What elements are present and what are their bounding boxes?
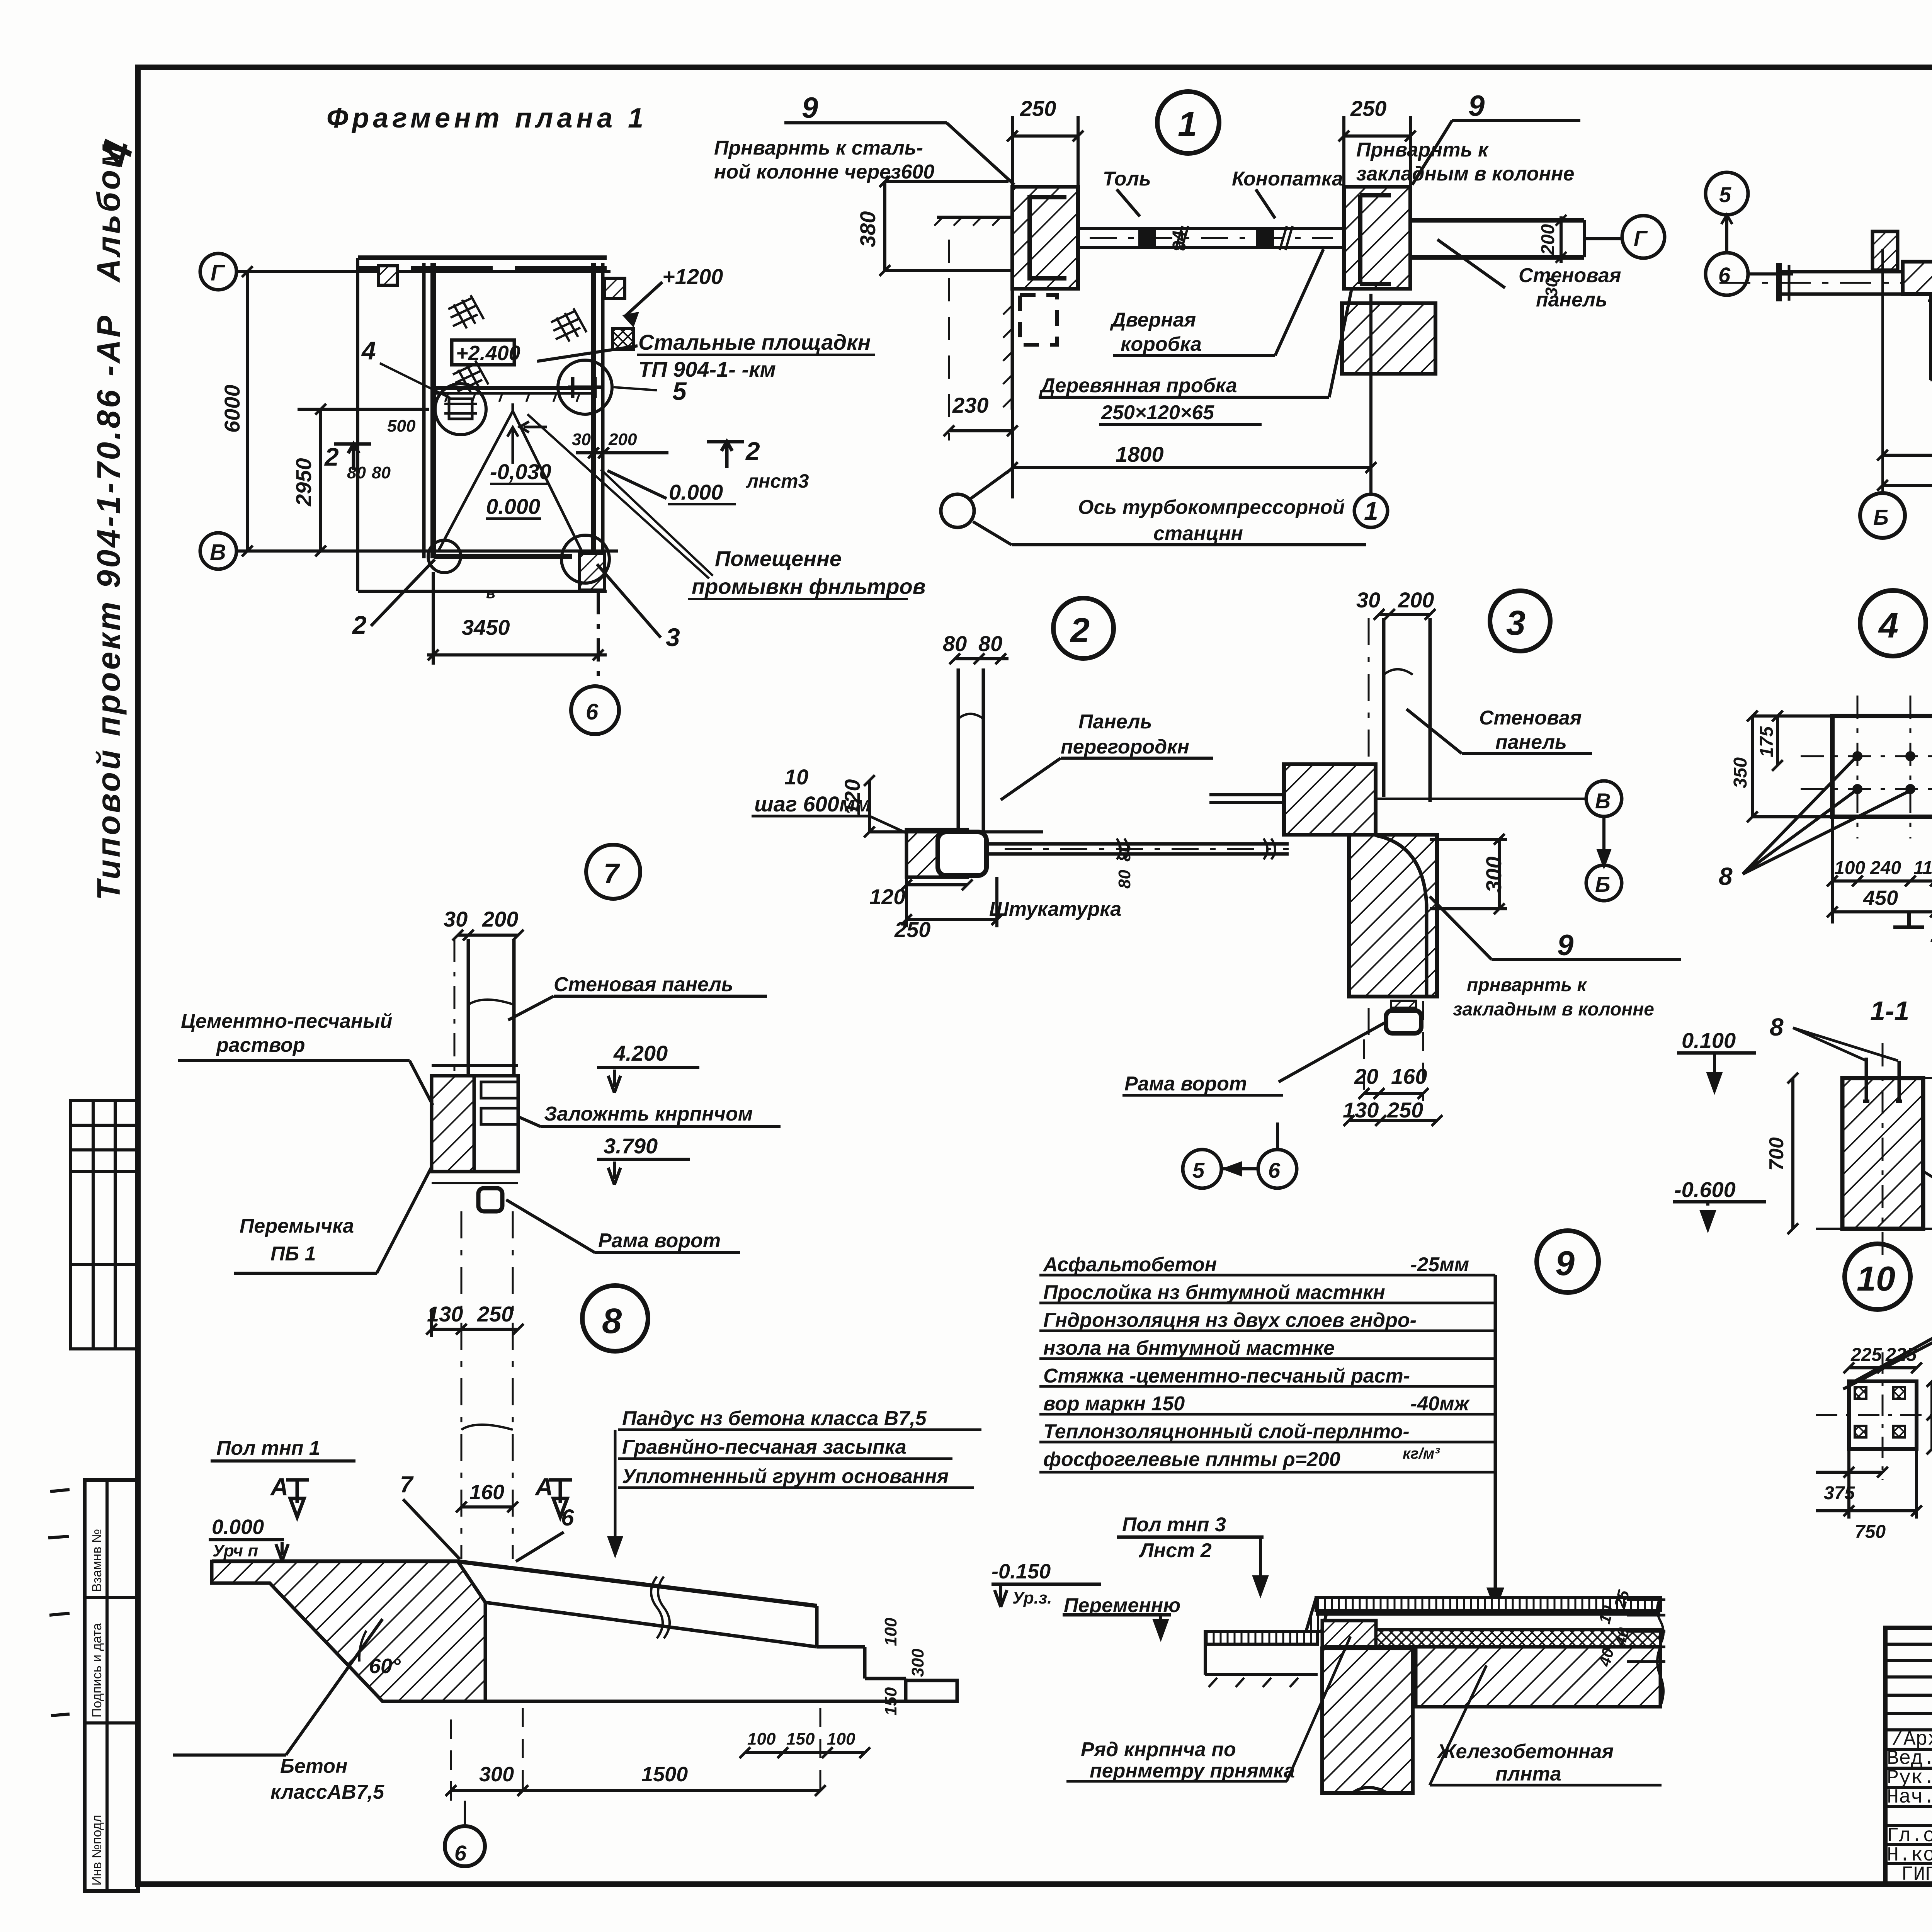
svg-text:Пол тнп 3: Пол тнп 3 (1122, 1514, 1226, 1536)
svg-text:раствор: раствор (216, 1034, 305, 1056)
svg-text:9: 9 (802, 92, 818, 124)
svg-text:Взамнв №: Взамнв № (90, 1529, 104, 1592)
svg-text:200: 200 (482, 907, 518, 931)
svg-text:Переменню: Переменню (1064, 1594, 1180, 1617)
svg-text:240: 240 (1870, 858, 1901, 878)
svg-text:плнта: плнта (1495, 1763, 1561, 1785)
svg-text:130: 130 (1343, 1098, 1379, 1122)
svg-text:100: 100 (881, 1617, 900, 1646)
svg-text:450: 450 (1863, 886, 1898, 910)
svg-text:Г: Г (211, 260, 225, 286)
svg-text:-40мж: -40мж (1410, 1393, 1470, 1415)
svg-text:Стяжка -цементно-песчаный рас: Стяжка -цементно-песчаный раст- (1043, 1365, 1410, 1387)
svg-text:ГИП: ГИП (1901, 1863, 1932, 1886)
svg-text:Нач.отд.Саакьянц: Нач.отд.Саакьянц (1887, 1786, 1932, 1809)
svg-text:0.100: 0.100 (1682, 1028, 1736, 1053)
svg-text:250: 250 (1020, 96, 1056, 121)
svg-text:2: 2 (352, 611, 367, 639)
svg-text:Цементно-песчаный: Цементно-песчаный (181, 1010, 392, 1032)
svg-text:230: 230 (952, 393, 988, 417)
svg-text:Заложнть кнрпнчом: Заложнть кнрпнчом (544, 1103, 753, 1125)
svg-text:120: 120 (869, 884, 905, 909)
svg-text:1: 1 (1178, 105, 1197, 144)
svg-text:0.000: 0.000 (486, 494, 540, 519)
svg-text:4: 4 (361, 336, 376, 365)
svg-text:Стеновая: Стеновая (1479, 707, 1582, 729)
svg-text:0.000: 0.000 (669, 480, 723, 504)
svg-text:Асфальтобетон: Асфальтобетон (1043, 1253, 1217, 1276)
svg-text:2: 2 (745, 437, 760, 465)
svg-text:закладным в колонне: закладным в колонне (1356, 163, 1574, 185)
svg-text:30: 30 (444, 907, 468, 931)
svg-text:в: в (486, 585, 495, 602)
svg-text:+2.400: +2.400 (456, 342, 520, 365)
svg-text:Рама ворот: Рама ворот (1124, 1073, 1247, 1095)
svg-text:160: 160 (1391, 1064, 1427, 1088)
svg-text:Помещенне: Помещенне (715, 546, 842, 571)
svg-text:30: 30 (1542, 278, 1561, 297)
svg-text:прнварнть к: прнварнть к (1467, 975, 1588, 995)
svg-text:Лнст 2: Лнст 2 (1138, 1539, 1212, 1562)
svg-text:промывкн фнльтров: промывкн фнльтров (692, 574, 926, 599)
svg-text:Стеновая панель: Стеновая панель (554, 973, 733, 996)
svg-text:3: 3 (666, 623, 680, 651)
svg-text:250: 250 (477, 1302, 513, 1326)
svg-text:пернметру прнямка: пернметру прнямка (1090, 1760, 1295, 1782)
svg-text:60°: 60° (369, 1655, 401, 1678)
svg-text:Ур.з.: Ур.з. (1012, 1588, 1052, 1607)
svg-text:80: 80 (1115, 870, 1134, 889)
svg-text:-0.150: -0.150 (992, 1560, 1051, 1583)
svg-text:лнст3: лнст3 (746, 470, 809, 492)
svg-text:6: 6 (454, 1841, 467, 1865)
svg-text:380: 380 (855, 211, 880, 247)
svg-text:Гндронзоляцня нз двух слоев: Гндронзоляцня нз двух слоев гндро- (1043, 1309, 1417, 1332)
svg-text:80: 80 (978, 631, 1002, 656)
svg-text:Г: Г (1634, 226, 1648, 250)
svg-text:Б: Б (1873, 505, 1889, 529)
svg-text:1500: 1500 (641, 1763, 688, 1786)
svg-text:панель: панель (1495, 731, 1567, 753)
svg-text:250: 250 (1350, 96, 1386, 121)
svg-text:Ряд кнрпнча по: Ряд кнрпнча по (1081, 1738, 1236, 1761)
svg-text:750: 750 (1855, 1522, 1886, 1542)
svg-text:закладным в колонне: закладным в колонне (1453, 999, 1654, 1020)
svg-text:4: 4 (1878, 606, 1898, 645)
svg-text:350: 350 (1730, 757, 1751, 788)
svg-text:6000: 6000 (220, 384, 244, 433)
svg-text:1: 1 (1364, 497, 1378, 525)
svg-text:20: 20 (1354, 1064, 1378, 1088)
svg-text:перегородкн: перегородкн (1061, 736, 1189, 758)
svg-text:Инв №подл: Инв №подл (90, 1815, 104, 1886)
svg-text:Пандус нз бетона класса В7,: Пандус нз бетона класса В7,5 (622, 1407, 927, 1430)
svg-text:Штукатурка: Штукатурка (989, 898, 1121, 920)
svg-text:Теплонзоляцнонный слой-перлнт: Теплонзоляцнонный слой-перлнто- (1043, 1420, 1410, 1443)
svg-text:225: 225 (1850, 1345, 1882, 1365)
svg-text:10: 10 (1857, 1260, 1895, 1298)
svg-text:4.200: 4.200 (613, 1041, 668, 1065)
svg-text:5: 5 (1192, 1158, 1205, 1182)
svg-text:250×120×65: 250×120×65 (1101, 401, 1214, 424)
svg-text:Панель: Панель (1078, 711, 1152, 733)
svg-text:2: 2 (324, 442, 339, 471)
svg-text:175: 175 (1757, 726, 1777, 757)
svg-text:кг/м³: кг/м³ (1403, 1445, 1440, 1462)
svg-text:-25мм: -25мм (1410, 1253, 1469, 1276)
svg-text:9: 9 (1557, 929, 1573, 962)
svg-text:A: A (270, 1473, 288, 1501)
svg-text:200: 200 (1538, 224, 1558, 255)
svg-text:100: 100 (827, 1730, 855, 1748)
svg-text:вор маркн 150: вор маркн 150 (1043, 1393, 1185, 1415)
svg-text:10: 10 (784, 765, 808, 789)
svg-text:Толь: Толь (1103, 168, 1151, 190)
svg-text:9: 9 (1468, 90, 1485, 122)
svg-text:200: 200 (608, 430, 637, 449)
svg-text:700: 700 (1765, 1137, 1788, 1171)
svg-text:ной колонне через600: ной колонне через600 (714, 161, 934, 183)
svg-text:Прослойка нз бнтумной мастн: Прослойка нз бнтумной мастнкн (1043, 1281, 1385, 1304)
svg-text:Прнварнть к сталь-: Прнварнть к сталь- (714, 137, 923, 159)
svg-text:коробка: коробка (1121, 333, 1202, 355)
svg-text:Уплотненный грунт основання: Уплотненный грунт основання (622, 1465, 949, 1488)
svg-text:Прнварнть к: Прнварнть к (1356, 139, 1489, 161)
svg-text:1: 1 (1930, 920, 1932, 947)
svg-text:3450: 3450 (462, 615, 510, 639)
svg-text:5: 5 (1719, 182, 1731, 207)
svg-text:2950: 2950 (291, 458, 316, 507)
svg-text:30: 30 (572, 430, 591, 449)
svg-text:Дверная: Дверная (1110, 309, 1196, 331)
svg-text:ТП 904-1- -км: ТП 904-1- -км (638, 357, 776, 381)
svg-text:классАВ7,5: классАВ7,5 (270, 1781, 384, 1803)
svg-text:Типовой проект 904-1-70.86 -А: Типовой проект 904-1-70.86 -АР (90, 313, 127, 900)
svg-text:8: 8 (1719, 862, 1733, 890)
svg-text:Фрагмент плана 1: Фрагмент плана 1 (327, 103, 647, 134)
svg-text:-0,030: -0,030 (490, 459, 551, 484)
svg-text:8: 8 (602, 1301, 622, 1341)
svg-text:100: 100 (747, 1730, 776, 1748)
svg-text:Рама ворот: Рама ворот (598, 1230, 721, 1252)
svg-text:нзола на бнтумной мастнке: нзола на бнтумной мастнке (1043, 1337, 1335, 1359)
svg-text:Бетон: Бетон (280, 1755, 347, 1777)
svg-text:7: 7 (400, 1471, 414, 1497)
svg-text:80: 80 (347, 463, 366, 482)
svg-text:A: A (534, 1473, 553, 1501)
svg-text:7: 7 (604, 858, 620, 889)
svg-text:9: 9 (1555, 1244, 1575, 1283)
svg-text:8: 8 (1770, 1013, 1784, 1041)
svg-text:станцнн: станцнн (1153, 522, 1243, 545)
svg-text:150: 150 (881, 1687, 900, 1716)
svg-text:фосфогелевые плнты ρ=200: фосфогелевые плнты ρ=200 (1043, 1448, 1340, 1471)
svg-text:0.000: 0.000 (212, 1515, 264, 1539)
svg-text:300: 300 (908, 1648, 927, 1677)
svg-text:6: 6 (1268, 1158, 1281, 1182)
svg-text:500: 500 (387, 417, 416, 435)
svg-text:В: В (1595, 789, 1611, 813)
svg-text:ПБ 1: ПБ 1 (270, 1243, 316, 1265)
svg-text:+1200: +1200 (662, 264, 723, 289)
svg-text:1800: 1800 (1116, 442, 1164, 466)
svg-text:Б: Б (1595, 872, 1611, 896)
svg-text:110: 110 (1913, 858, 1932, 878)
svg-text:3: 3 (1506, 604, 1526, 643)
svg-text:2: 2 (1070, 611, 1090, 650)
svg-text:Урч п: Урч п (213, 1541, 258, 1560)
svg-text:Стеновая: Стеновая (1519, 264, 1621, 287)
svg-text:250: 250 (1387, 1098, 1423, 1122)
svg-text:Конопатка: Конопатка (1232, 168, 1343, 190)
svg-text:Ось турбокомпрессорной: Ось турбокомпрессорной (1078, 496, 1345, 519)
svg-text:130: 130 (427, 1302, 463, 1326)
svg-text:Подпись и дата: Подпись и дата (90, 1623, 104, 1718)
svg-text:Гравнйно-песчаная засыпка: Гравнйно-песчаная засыпка (622, 1436, 906, 1458)
svg-text:300: 300 (1481, 857, 1506, 893)
svg-text:150: 150 (786, 1730, 815, 1748)
svg-text:3.790: 3.790 (604, 1134, 658, 1158)
svg-text:100: 100 (1834, 858, 1865, 878)
svg-text:225: 225 (1885, 1345, 1917, 1365)
svg-text:Пол тнп 1: Пол тнп 1 (216, 1437, 320, 1459)
svg-text:-0.600: -0.600 (1674, 1177, 1736, 1202)
svg-text:375: 375 (1824, 1483, 1855, 1503)
svg-text:80: 80 (943, 631, 967, 656)
svg-text:Стальные площадкн: Стальные площадкн (638, 330, 871, 354)
svg-text:200: 200 (1398, 588, 1434, 612)
svg-text:Железобетонная: Железобетонная (1436, 1740, 1614, 1763)
svg-text:Перемычка: Перемычка (240, 1215, 354, 1237)
svg-text:80: 80 (372, 463, 391, 482)
svg-text:Деревянная пробка: Деревянная пробка (1039, 374, 1237, 397)
svg-text:6: 6 (561, 1505, 574, 1531)
svg-text:1-1: 1-1 (1870, 996, 1909, 1026)
svg-text:30: 30 (1356, 588, 1380, 612)
svg-text:В: В (210, 540, 226, 565)
svg-text:300: 300 (479, 1763, 514, 1786)
svg-text:6: 6 (586, 699, 599, 724)
svg-text:120: 120 (840, 779, 864, 815)
svg-text:160: 160 (469, 1481, 504, 1504)
